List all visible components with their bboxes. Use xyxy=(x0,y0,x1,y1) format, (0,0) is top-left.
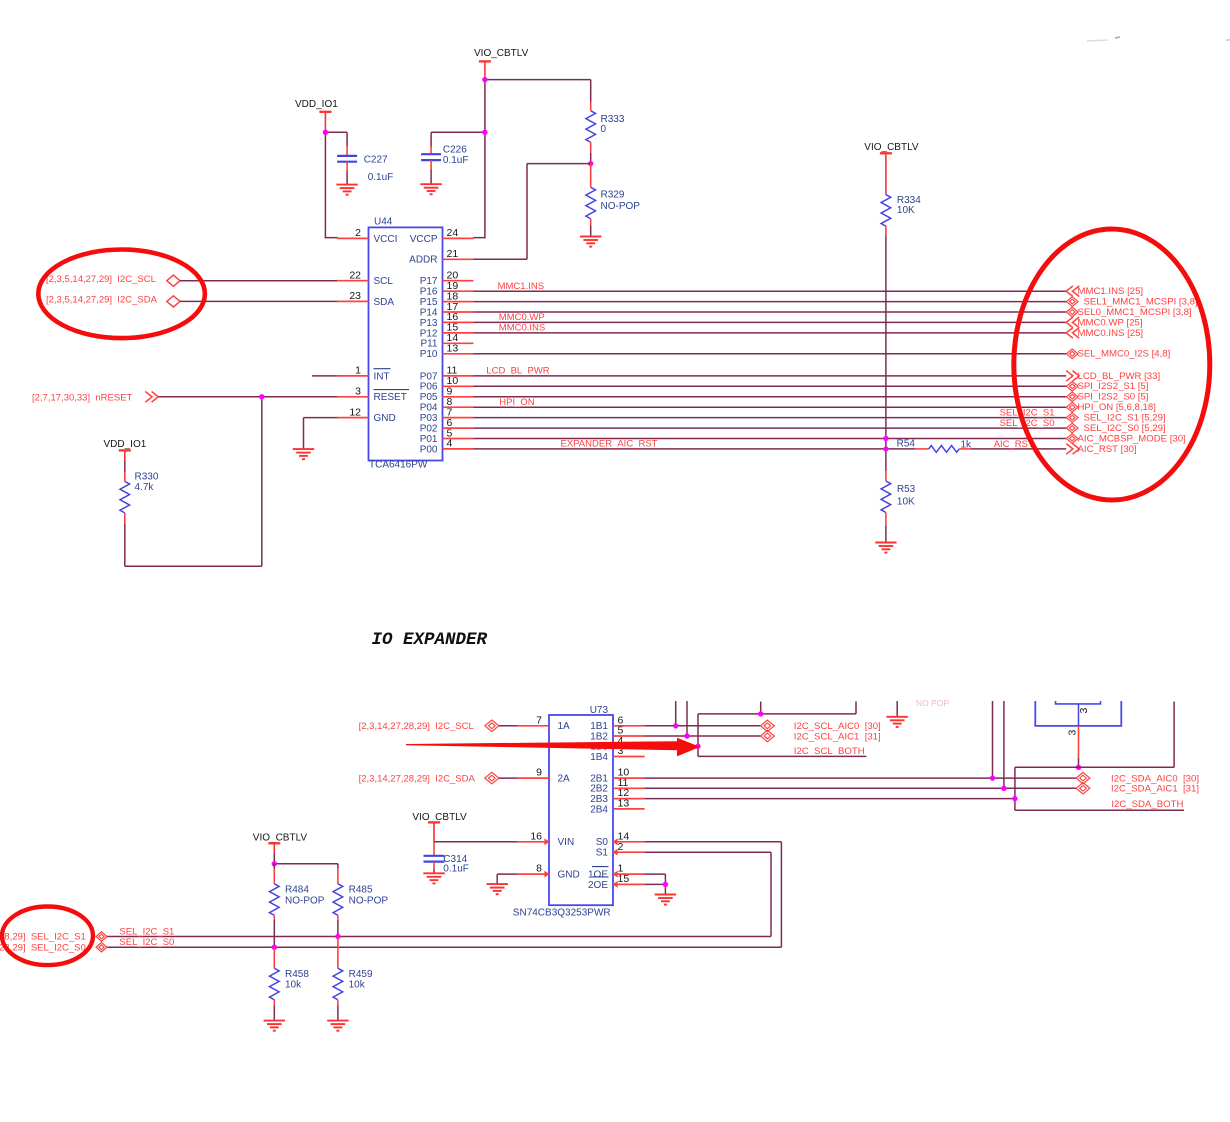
svg-text:MMC1.INS: MMC1.INS xyxy=(498,281,544,292)
wire U44 port rows xyxy=(474,291,1067,449)
wire stub vertical (2B1 riser) xyxy=(992,701,994,778)
junction SCL_BOTH / 1B3 xyxy=(695,744,700,749)
connector SEL_I2C_S1 [5,29] xyxy=(1066,413,1165,424)
junction C226/VCCP rail xyxy=(482,130,487,135)
connector I2C_SDA_AIC1 xyxy=(1076,783,1199,795)
net label LCD_BL_PWR xyxy=(486,366,549,377)
junction 2B1 riser xyxy=(990,775,995,780)
artifact faint NO POP text xyxy=(916,698,949,708)
connector SEL_I2C_S0 (left) xyxy=(0,942,107,953)
U44 pin stubs xyxy=(337,238,474,449)
wire 2B2 to I2C_SDA_AIC1 xyxy=(645,787,1077,789)
resistor R485 NO-POP xyxy=(333,869,388,937)
svg-text:VIO_CBTLV: VIO_CBTLV xyxy=(253,833,308,844)
svg-text:MMC0.INS: MMC0.INS xyxy=(499,323,545,334)
annotation red arrow xyxy=(406,738,700,757)
junction P01 row xyxy=(883,436,888,441)
svg-text:1k: 1k xyxy=(961,439,973,450)
net label SEL_I2C_S1 (wire) xyxy=(119,926,174,937)
power VIO_CBTLV (top) xyxy=(474,48,529,79)
svg-text:NO POP: NO POP xyxy=(916,698,949,708)
op IC U44 TCA6416PW xyxy=(369,216,443,470)
svg-text:SEL1_MMC1_MCSPI [3,8]: SEL1_MMC1_MCSPI [3,8] xyxy=(1084,297,1198,308)
wire U73 GND xyxy=(497,874,517,884)
svg-text:2B4: 2B4 xyxy=(590,804,608,815)
svg-text:C227: C227 xyxy=(364,155,388,166)
svg-text:P06: P06 xyxy=(420,382,438,393)
svg-text:0.1uF: 0.1uF xyxy=(443,863,469,874)
wire ADDR net xyxy=(474,164,591,260)
IC U73 SN74CB3Q3253PWR xyxy=(513,705,613,919)
junction R485/SEL_I2C_S1 xyxy=(335,934,340,939)
ground (R53) xyxy=(875,543,896,553)
svg-text:0: 0 xyxy=(601,124,607,135)
svg-text:NO-POP: NO-POP xyxy=(601,201,641,212)
net label HPI_ON xyxy=(499,397,535,408)
svg-text:SDA: SDA xyxy=(374,297,395,308)
power VIO_CBTLV (R334) xyxy=(864,142,919,195)
wire S0 loop (SEL_I2C_S0) xyxy=(107,842,782,947)
power VIO_CBTLV (R484) xyxy=(253,833,308,864)
svg-text:AIC_MCBSP_MODE [30]: AIC_MCBSP_MODE [30] xyxy=(1078,433,1186,444)
ground (C226) xyxy=(420,184,441,194)
wire 1B3 to I2C_SCL_BOTH xyxy=(645,745,698,747)
svg-text:U44: U44 xyxy=(374,216,393,227)
svg-text:MMC1.INS [25]: MMC1.INS [25] xyxy=(1078,286,1144,297)
U73 pin stubs xyxy=(517,726,645,888)
resistor R484 NO-POP xyxy=(269,864,324,948)
svg-text:21: 21 xyxy=(447,248,459,260)
wire VDD_IO1 node xyxy=(325,132,347,238)
wire 1B2 to I2C_SCL_AIC1 xyxy=(645,735,761,737)
svg-text:VIO_CBTLV: VIO_CBTLV xyxy=(474,48,529,59)
svg-text:HPI_ON [5,6,8,18]: HPI_ON [5,6,8,18] xyxy=(1078,402,1156,413)
svg-text:0.1uF: 0.1uF xyxy=(368,172,394,183)
svg-text:LCD_BL_PWR [33]: LCD_BL_PWR [33] xyxy=(1078,371,1161,382)
net label MMC0.INS xyxy=(499,323,545,334)
connector SEL_MMC0_I2S [4,8] xyxy=(1066,349,1170,360)
svg-text:R485: R485 xyxy=(349,885,373,896)
wire AIC_RST xyxy=(971,439,1066,450)
power VDD_IO1 (top) xyxy=(295,99,338,131)
net label SEL_I2C_S0 (wire) xyxy=(119,937,174,948)
svg-text:10K: 10K xyxy=(897,205,915,216)
resistor R334 10K xyxy=(881,195,921,235)
wire I2C_SDA_BOTH rail xyxy=(1015,702,1184,811)
svg-text:R459: R459 xyxy=(349,969,373,980)
svg-text:[28,29] SEL_I2C_S1: [28,29] SEL_I2C_S1 xyxy=(0,932,86,943)
svg-text:S0: S0 xyxy=(596,837,609,848)
net label MMC0.WP xyxy=(499,312,545,323)
junction 1B2 riser xyxy=(684,733,689,738)
connector I2C_SDA_AIC0 xyxy=(1076,772,1199,784)
svg-text:U73: U73 xyxy=(590,705,609,716)
wire INT stub xyxy=(312,375,337,377)
connector nRESET xyxy=(32,392,158,404)
junction 2B3 / SDA_BOTH xyxy=(1012,796,1017,801)
svg-text:SEL0_MMC1_MCSPI [3,8]: SEL0_MMC1_MCSPI [3,8] xyxy=(1078,307,1192,318)
resistor R459 10k xyxy=(333,937,373,1021)
svg-text:P17: P17 xyxy=(420,276,438,287)
svg-text:1B4: 1B4 xyxy=(590,752,608,763)
connector SPI_I2S2_S1 [5] xyxy=(1066,381,1148,392)
svg-text:I2C_SCL_AIC1 [31]: I2C_SCL_AIC1 [31] xyxy=(794,731,881,742)
connector I2C_SCL_AIC0 xyxy=(761,720,881,732)
svg-text:8: 8 xyxy=(536,863,542,875)
connector SEL0_MMC1_MCSPI [3,8] xyxy=(1066,307,1191,318)
net label SEL_I2C_S0 xyxy=(1000,418,1055,429)
svg-text:SEL_I2C_S0 [5,29]: SEL_I2C_S0 [5,29] xyxy=(1084,423,1166,434)
svg-text:SCL: SCL xyxy=(374,276,394,287)
svg-text:13: 13 xyxy=(447,343,459,355)
svg-text:P16: P16 xyxy=(420,287,438,298)
svg-text:I2C_SDA_AIC1 [31]: I2C_SDA_AIC1 [31] xyxy=(1111,784,1199,795)
svg-text:P03: P03 xyxy=(420,413,438,424)
svg-text:P14: P14 xyxy=(420,307,438,318)
junction 2B2 riser xyxy=(1001,786,1006,791)
svg-text:VDD_IO1: VDD_IO1 xyxy=(295,99,338,110)
svg-text:10k: 10k xyxy=(349,980,366,991)
net label SEL_I2C_S1 xyxy=(1000,407,1055,418)
svg-text:INT: INT xyxy=(374,371,390,382)
resistor R330 4.7k xyxy=(120,461,159,566)
svg-text:I2C_SDA_BOTH: I2C_SDA_BOTH xyxy=(1111,799,1183,810)
svg-text:1A: 1A xyxy=(558,721,571,732)
resistor R458 10k xyxy=(269,947,309,1020)
svg-text:HPI_ON: HPI_ON xyxy=(499,397,535,408)
svg-text:MMC0.WP [25]: MMC0.WP [25] xyxy=(1078,317,1143,328)
power VIO_CBTLV (C314) xyxy=(412,812,467,842)
ground (C227) xyxy=(336,185,357,195)
connector AIC_MCBSP_MODE [30] xyxy=(1066,433,1185,444)
svg-text:R53: R53 xyxy=(897,484,916,495)
svg-text:SEL_MMC0_I2S [4,8]: SEL_MMC0_I2S [4,8] xyxy=(1078,349,1171,360)
artifact faint marks top right xyxy=(1087,37,1230,41)
svg-text:EXPANDER_AIC_RST: EXPANDER_AIC_RST xyxy=(561,438,658,449)
wire I2C_SCL to 1A xyxy=(499,725,517,727)
svg-text:P04: P04 xyxy=(420,403,438,414)
svg-text:SN74CB3Q3253PWR: SN74CB3Q3253PWR xyxy=(513,908,611,919)
svg-text:9: 9 xyxy=(536,767,542,779)
junction SCL_BOTH top xyxy=(758,711,763,716)
svg-text:VCCI: VCCI xyxy=(374,234,398,245)
connector SPI_I2S2_S0 [5] xyxy=(1066,392,1148,403)
wire I2C_SDA xyxy=(180,300,337,302)
net label I2C_SDA_BOTH xyxy=(1111,799,1183,810)
junction VDD_IO1/C227 xyxy=(323,130,328,135)
svg-text:SEL_I2C_S0: SEL_I2C_S0 xyxy=(119,937,174,948)
connector SEL_I2C_S1 (left) xyxy=(0,932,107,943)
junction 2OE/ground xyxy=(663,882,668,887)
connector MMC0.WP [25] xyxy=(1066,317,1142,328)
svg-text:GND: GND xyxy=(558,870,580,881)
svg-text:24: 24 xyxy=(447,227,459,239)
svg-text:23: 23 xyxy=(349,290,361,302)
resistor R329 NO-POP xyxy=(586,164,640,237)
svg-text:[2,3,14,27,28,29] I2C_SCL: [2,3,14,27,28,29] I2C_SCL xyxy=(359,721,474,732)
svg-text:SPI_I2S2_S0 [5]: SPI_I2S2_S0 [5] xyxy=(1078,392,1149,403)
wire U44 GND xyxy=(304,418,338,450)
svg-text:4.7k: 4.7k xyxy=(135,482,155,493)
connector I2C_SCL_AIC1 xyxy=(761,730,881,742)
connector I2C_SCL (sheet ports) xyxy=(46,274,180,286)
svg-text:R458: R458 xyxy=(285,969,309,980)
annotation ellipse right (port list) xyxy=(1014,229,1210,500)
svg-text:MMC0.WP: MMC0.WP xyxy=(499,312,545,323)
svg-text:P01: P01 xyxy=(420,434,438,445)
svg-text:P07: P07 xyxy=(420,371,438,382)
svg-text:P02: P02 xyxy=(420,424,438,435)
connector MMC0.INS [25] xyxy=(1066,328,1143,339)
resistor R53 10K xyxy=(881,471,916,542)
svg-text:P15: P15 xyxy=(420,297,438,308)
junction P00 row xyxy=(883,446,888,451)
svg-text:7: 7 xyxy=(536,714,542,726)
svg-text:P13: P13 xyxy=(420,318,438,329)
svg-text:NO-POP: NO-POP xyxy=(349,895,389,906)
svg-text:[2,3,14,27,28,29] I2C_SDA: [2,3,14,27,28,29] I2C_SDA xyxy=(359,773,476,784)
capacitor C226 xyxy=(421,132,485,184)
svg-text:2A: 2A xyxy=(558,774,571,785)
svg-text:SPI_I2S2_S1 [5]: SPI_I2S2_S1 [5] xyxy=(1078,381,1149,392)
svg-text:3: 3 xyxy=(355,386,361,398)
svg-text:2OE: 2OE xyxy=(588,880,608,891)
ground (R458) xyxy=(264,1021,285,1031)
svg-text:RESET: RESET xyxy=(374,392,407,403)
svg-text:GND: GND xyxy=(374,413,396,424)
U44 pin numbers xyxy=(349,227,458,450)
connector I2C_SCL (U73) xyxy=(359,720,499,732)
wire I2C_SCL xyxy=(180,280,337,282)
svg-text:P12: P12 xyxy=(420,328,438,339)
ground (C314) xyxy=(423,873,444,883)
junction 1B1 riser xyxy=(673,723,678,728)
wire 1B1 to I2C_SCL_AIC0 xyxy=(645,725,761,727)
wire VIO_CBTLV rail to R333 and VCCP xyxy=(473,80,591,239)
svg-text:22: 22 xyxy=(349,270,361,282)
wire R334 net vertical xyxy=(885,235,887,471)
svg-text:IO EXPANDER: IO EXPANDER xyxy=(372,630,488,650)
svg-text:I2C_SCL_BOTH: I2C_SCL_BOTH xyxy=(794,746,865,757)
wire I2C_SCL_BOTH loop xyxy=(698,702,866,757)
svg-text:SEL_I2C_S1 [5,29]: SEL_I2C_S1 [5,29] xyxy=(1084,413,1166,424)
svg-text:S1: S1 xyxy=(596,848,609,859)
connector SEL_I2C_S0 [5,29] xyxy=(1066,423,1165,434)
svg-text:R54: R54 xyxy=(897,439,916,450)
svg-text:VIO_CBTLV: VIO_CBTLV xyxy=(864,142,919,153)
svg-text:AIC_RST: AIC_RST xyxy=(994,439,1034,450)
ground (R329) xyxy=(580,237,601,247)
junction VIO/R484 xyxy=(272,861,277,866)
svg-text:SEL_I2C_S1: SEL_I2C_S1 xyxy=(119,926,174,937)
svg-text:ADDR: ADDR xyxy=(409,255,437,266)
svg-text:P00: P00 xyxy=(420,444,438,455)
ground (OE pins) xyxy=(655,895,676,905)
svg-text:10K: 10K xyxy=(897,496,915,507)
ground (U73 GND) xyxy=(487,884,508,894)
svg-text:MMC0.INS [25]: MMC0.INS [25] xyxy=(1078,328,1144,339)
svg-text:[28,29] SEL_I2C_S0: [28,29] SEL_I2C_S0 xyxy=(0,942,86,953)
svg-text:NO-POP: NO-POP xyxy=(285,895,325,906)
connector LCD_BL_PWR [33] xyxy=(1066,371,1160,382)
U73 pin numbers xyxy=(530,714,629,885)
svg-text:0.1uF: 0.1uF xyxy=(443,155,469,166)
ground (U44 GND) xyxy=(293,449,314,459)
svg-text:[2,3,5,14,27,29] I2C_SCL: [2,3,5,14,27,29] I2C_SCL xyxy=(46,274,156,285)
wire 2B3 to I2C_SDA_BOTH xyxy=(645,798,1015,800)
junction nRESET/R330 xyxy=(259,394,264,399)
svg-text:C226: C226 xyxy=(443,144,467,155)
wire I2C_SDA to 2A xyxy=(499,777,517,779)
junction R484/SEL_I2C_S0 xyxy=(272,945,277,950)
svg-text:SEL_I2C_S1: SEL_I2C_S1 xyxy=(1000,407,1055,418)
wire S1 loop (SEL_I2C_S1) xyxy=(107,852,771,936)
svg-text:TCA6416PW: TCA6416PW xyxy=(369,460,428,471)
svg-text:3: 3 xyxy=(1066,730,1078,736)
wire 2B1 to I2C_SDA_AIC0 xyxy=(645,777,1077,779)
svg-text:R484: R484 xyxy=(285,885,309,896)
svg-text:16: 16 xyxy=(530,830,542,842)
resistor R54 1k xyxy=(897,439,972,453)
svg-text:12: 12 xyxy=(349,406,361,418)
IC fragment (cropped) with pin 3 xyxy=(1035,701,1121,767)
wire nRESET xyxy=(125,397,337,566)
net label EXPANDER_AIC_RST xyxy=(561,438,658,449)
power VDD_IO1 (R330) xyxy=(104,439,147,461)
connector I2C_SDA (U73) xyxy=(359,772,499,784)
svg-text:[2,7,17,30,33] nRESET: [2,7,17,30,33] nRESET xyxy=(32,392,133,403)
wire VIN xyxy=(434,841,517,843)
net label MMC1.INS xyxy=(498,281,544,292)
svg-text:LCD_BL_PWR: LCD_BL_PWR xyxy=(486,366,549,377)
connector HPI_ON [5,6,8,18] xyxy=(1066,402,1155,413)
junction R333/R329/ADDR xyxy=(588,161,593,166)
capacitor C227 xyxy=(337,147,393,185)
svg-text:R329: R329 xyxy=(601,190,625,201)
svg-text:P05: P05 xyxy=(420,392,438,403)
svg-text:10k: 10k xyxy=(285,980,302,991)
net label I2C_SCL_BOTH xyxy=(794,746,865,757)
annotation ellipse left (I2C_SCL/SDA) xyxy=(38,249,205,338)
svg-text:[2,3,5,14,27,29] I2C_SDA: [2,3,5,14,27,29] I2C_SDA xyxy=(46,295,158,306)
capacitor C314 xyxy=(424,842,469,875)
svg-text:AIC_RST [30]: AIC_RST [30] xyxy=(1078,444,1137,455)
connector I2C_SDA xyxy=(46,295,180,308)
wire stub vertical (2B2 riser) xyxy=(1003,701,1005,788)
svg-text:P11: P11 xyxy=(420,339,437,350)
wire stub vertical (1B2 riser) xyxy=(686,701,688,736)
svg-text:P10: P10 xyxy=(420,349,438,360)
junction VIO rail top xyxy=(482,77,487,82)
svg-text:4: 4 xyxy=(447,438,453,450)
title IO EXPANDER xyxy=(372,630,488,650)
svg-text:3: 3 xyxy=(1078,708,1090,714)
svg-text:R330: R330 xyxy=(135,472,159,483)
connector SEL1_MMC1_MCSPI [3,8] xyxy=(1066,297,1197,308)
svg-text:VCCP: VCCP xyxy=(410,234,438,245)
svg-text:VIN: VIN xyxy=(558,837,575,848)
wire 1OE/2OE xyxy=(645,874,666,894)
svg-text:2: 2 xyxy=(355,227,361,239)
junction pin3 / SDA_BOTH rail xyxy=(1076,765,1081,770)
svg-text:VDD_IO1: VDD_IO1 xyxy=(104,439,147,450)
wire VIO to R485 xyxy=(274,864,338,869)
svg-text:1: 1 xyxy=(355,365,361,377)
wire stub vertical (1B1 riser) xyxy=(675,701,677,726)
ground (cropped, near NO POP) xyxy=(887,701,908,727)
resistor R333 0 xyxy=(586,102,625,164)
annotation ellipse bottom-left (SEL_I2C) xyxy=(2,907,93,966)
ground (R459) xyxy=(327,1021,348,1031)
connector AIC_RST [30] xyxy=(1066,444,1136,455)
connector MMC1.INS [25] xyxy=(1066,286,1143,297)
